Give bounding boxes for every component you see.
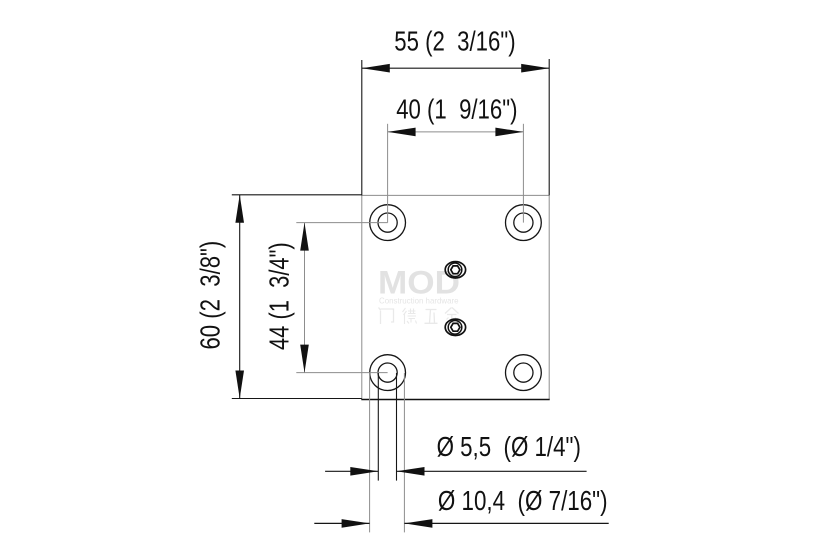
svg-text:55 (2 3/16"): 55 (2 3/16") (394, 26, 515, 57)
dim 55 extension line left (361, 60, 363, 195)
dim 55 extension line right (548, 59, 550, 195)
svg-text:Ø 5,5 (Ø 1/4"): Ø 5,5 (Ø 1/4") (437, 431, 581, 462)
dia 10.4 leader line left (314, 522, 369, 524)
hole bottom-right (506, 355, 542, 391)
dim 40 arrow right (495, 128, 523, 137)
dia 10.4 arrow left (342, 519, 370, 528)
dia 5.5 arrow right (397, 467, 425, 476)
dim 55 arrow right (521, 64, 549, 73)
watermark chinese char 五 (425, 310, 438, 324)
dim 40 dimension line (388, 131, 524, 133)
hole top-right (506, 205, 542, 241)
svg-text:Ø 10,4 (Ø 7/16"): Ø 10,4 (Ø 7/16") (438, 485, 608, 516)
dim 44 arrow top (300, 223, 309, 251)
dim 60 extension line bottom (232, 398, 362, 400)
dia 5.5 leader line left (325, 470, 378, 472)
plate top edge (362, 194, 549, 196)
hole tangent line outer-left (10.4) (369, 373, 371, 532)
watermark MOD logo (378, 264, 460, 300)
watermark chinese char 金 (445, 308, 459, 323)
watermark tagline Construction hardware (379, 296, 459, 305)
dim 40 extension line left (387, 124, 389, 223)
dim 44 extension line bottom (296, 372, 387, 374)
dim 44 extension line top (296, 222, 387, 224)
set screw upper (445, 262, 465, 278)
svg-text:40 (1 9/16"): 40 (1 9/16") (396, 94, 517, 125)
set screw lower (445, 319, 465, 335)
dim 60 arrow bottom (235, 371, 244, 399)
hole top-left (370, 205, 406, 241)
dim 40 extension line right (522, 124, 524, 223)
watermark chinese char 德 (403, 308, 417, 324)
hole tangent line inner-left (5.5) (377, 373, 379, 481)
dim 44 dimension line (304, 223, 306, 373)
svg-text:Construction hardware: Construction hardware (379, 296, 459, 305)
watermark chinese char 门 (379, 308, 394, 325)
dim 60 extension line top (232, 194, 362, 196)
dim 55 dimension line (362, 67, 549, 69)
svg-text:44 (1 3/4"): 44 (1 3/4") (264, 242, 295, 350)
dia 10.4 arrow right (404, 519, 432, 528)
dim 60 dimension line (239, 195, 241, 399)
hole tangent line inner-right (5.5) (396, 373, 398, 481)
dia 5.5 arrow left (350, 467, 378, 476)
dim 55 arrow left (362, 64, 390, 73)
hole tangent line outer-right (10.4) (403, 373, 405, 532)
dia 5.5 leader line right (397, 470, 587, 472)
svg-text:60 (2 3/8"): 60 (2 3/8") (195, 241, 226, 350)
dim 60 arrow top (235, 195, 244, 223)
dim 40 arrow left (388, 128, 416, 137)
dim 44 arrow bottom (300, 345, 309, 373)
hole bottom-left (370, 355, 406, 391)
plate left edge (361, 195, 363, 399)
plate right edge (548, 195, 550, 399)
dia 10.4 leader line right (404, 522, 608, 524)
plate bottom edge (361, 399, 549, 401)
